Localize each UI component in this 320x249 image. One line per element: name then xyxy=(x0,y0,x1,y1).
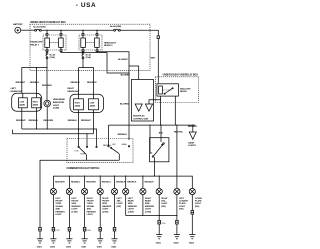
wire main bus to right xyxy=(41,29,113,31)
svg-text:LIGHT: LIGHT xyxy=(53,105,60,107)
svg-text:HEADLIGHT: HEADLIGHT xyxy=(67,90,80,93)
label lamp 5 xyxy=(117,198,124,208)
wire stubs to grounds xyxy=(40,231,115,239)
svg-text:LEFT: LEFT xyxy=(117,198,123,200)
svg-text:LIGHT: LIGHT xyxy=(55,214,62,216)
svg-text:MULTIPLEX: MULTIPLEX xyxy=(133,115,145,117)
driver triangle 2 xyxy=(145,104,152,111)
svg-text:- USA: - USA xyxy=(76,2,96,9)
bus rear ground xyxy=(126,215,177,217)
relay headlight relay 2 xyxy=(79,34,117,52)
bus taillight feed horizontal xyxy=(109,124,196,126)
wire stubs rear grounds xyxy=(159,214,192,235)
svg-text:LEFT: LEFT xyxy=(11,88,17,90)
svg-text:(5W): (5W) xyxy=(195,206,200,208)
wire relay2 coil to multiplex (A) xyxy=(97,51,129,66)
svg-text:COMBINATION LIGHT SWITCH: COMBINATION LIGHT SWITCH xyxy=(67,167,100,170)
svg-text:PARKING: PARKING xyxy=(55,210,65,213)
svg-text:RED/BLK: RED/BLK xyxy=(116,182,126,184)
wire right taillight drop xyxy=(176,125,178,188)
svg-text:G553: G553 xyxy=(189,242,195,244)
wire fuse1 output junction xyxy=(46,59,48,68)
svg-text:LEFT: LEFT xyxy=(179,198,185,200)
svg-text:RED/BLU: RED/BLU xyxy=(71,182,81,184)
svg-text:RED/BLK: RED/BLK xyxy=(188,126,198,128)
svg-text:HEADLIGHT: HEADLIGHT xyxy=(11,90,24,93)
bus parking lights feed xyxy=(53,176,159,188)
svg-text:No.21: No.21 xyxy=(86,54,92,56)
svg-text:C417: C417 xyxy=(55,230,59,232)
svg-text:LICENSE: LICENSE xyxy=(179,201,188,203)
connector C4 xyxy=(83,227,86,231)
under-dash fuse/relay box xyxy=(155,73,198,102)
svg-text:No.44 (20A): No.44 (20A) xyxy=(110,25,121,28)
node junction A-branch xyxy=(128,72,129,73)
svg-text:BLU/RED: BLU/RED xyxy=(121,74,131,76)
wire relay coil output to multiplex driver 2 xyxy=(149,96,161,104)
svg-text:RIGHT: RIGHT xyxy=(145,198,152,200)
wire drops to bulbs xyxy=(69,176,142,188)
wire right feed jog xyxy=(79,68,94,99)
svg-text:LIGHT: LIGHT xyxy=(195,203,202,205)
svg-text:BLU/RED: BLU/RED xyxy=(120,104,130,106)
wire relay1 coil to multiplex (B) xyxy=(61,51,129,73)
svg-text:MARKER: MARKER xyxy=(71,205,81,208)
node dots on taillight bus xyxy=(149,125,193,126)
wire fuse2 output junction xyxy=(82,59,84,68)
svg-text:RELAY 2: RELAY 2 xyxy=(104,44,113,47)
svg-text:G551: G551 xyxy=(111,247,117,249)
left headlight xyxy=(11,88,42,129)
svg-text:LEFT: LEFT xyxy=(128,198,134,200)
svg-text:FRONT: FRONT xyxy=(102,201,110,203)
node junction dots on bus xyxy=(46,30,97,31)
lamp left rear side marker light xyxy=(123,188,129,194)
wire license light feed from lamp bus xyxy=(159,176,192,188)
lamp left front turn signal light xyxy=(50,188,56,194)
svg-text:RIGHT: RIGHT xyxy=(161,198,168,200)
svg-text:RED/BLK: RED/BLK xyxy=(145,182,155,184)
svg-text:WHT: WHT xyxy=(151,58,156,60)
svg-text:FRONT: FRONT xyxy=(71,201,79,203)
svg-text:RED/GRN: RED/GRN xyxy=(55,182,65,184)
svg-text:G552: G552 xyxy=(174,242,180,244)
svg-text:RELAY: RELAY xyxy=(180,90,187,93)
svg-text:LIGHTS: LIGHTS xyxy=(188,145,196,147)
fuse No.44 (20A) on bus xyxy=(110,25,121,31)
label lamp 3 xyxy=(87,198,97,216)
wire relay contact output down to bus xyxy=(174,96,176,125)
node dots high bus xyxy=(47,128,48,129)
svg-text:G301: G301 xyxy=(97,247,103,249)
svg-text:HEAD: HEAD xyxy=(122,143,128,146)
svg-text:RED/BLK: RED/BLK xyxy=(118,134,128,136)
svg-text:G201: G201 xyxy=(50,247,56,249)
svg-text:G401: G401 xyxy=(37,246,43,249)
wire left feed jog xyxy=(22,68,47,94)
svg-text:RED/BLU: RED/BLU xyxy=(102,182,112,184)
svg-text:AND: AND xyxy=(87,208,92,211)
ground G203 xyxy=(82,239,88,243)
svg-text:FRONT: FRONT xyxy=(87,201,95,203)
wire ground run continues xyxy=(39,189,41,227)
svg-text:CONTROL UNIT: CONTROL UNIT xyxy=(133,118,149,120)
svg-text:RED/BLU: RED/BLU xyxy=(29,120,39,122)
svg-text:RED/WHT: RED/WHT xyxy=(16,120,26,122)
connector C9 xyxy=(191,211,194,215)
svg-text:(45W): (45W) xyxy=(75,104,81,107)
svg-text:INDICATOR: INDICATOR xyxy=(53,101,65,104)
connector C3 xyxy=(68,227,71,231)
svg-text:C559: C559 xyxy=(161,223,165,225)
ground G552 xyxy=(174,235,180,239)
lamp right front side marker light xyxy=(97,188,103,194)
svg-text:RED/GRN: RED/GRN xyxy=(86,182,96,184)
svg-text:DASH: DASH xyxy=(188,141,194,144)
label lamp 10 xyxy=(195,198,204,208)
connector C6 xyxy=(113,227,116,231)
svg-text:HIGH BEAM: HIGH BEAM xyxy=(53,98,65,101)
svg-text:TURN: TURN xyxy=(55,203,61,205)
svg-text:HIGH: HIGH xyxy=(33,101,38,103)
svg-text:LOW: LOW xyxy=(90,102,95,104)
svg-text:(45W): (45W) xyxy=(20,103,26,106)
wire stubs bus to relay pins xyxy=(47,30,97,33)
svg-text:UNDER-DASH FUSE/RELAY BOX: UNDER-DASH FUSE/RELAY BOX xyxy=(163,73,199,76)
svg-text:HEADLIGHT: HEADLIGHT xyxy=(104,41,117,44)
label lamp 8 xyxy=(161,198,168,208)
svg-text:PARKING: PARKING xyxy=(87,210,97,213)
wire rear lamp returns xyxy=(126,195,193,221)
svg-text:MARKER: MARKER xyxy=(102,205,112,208)
svg-text:HIGH: HIGH xyxy=(75,102,80,104)
wire relay2 output to fuse2 xyxy=(82,51,84,52)
svg-text:(45W): (45W) xyxy=(90,104,96,107)
combination light switch box xyxy=(67,139,134,171)
svg-text:(45W): (45W) xyxy=(33,103,39,106)
wire switch common to ground run xyxy=(67,159,119,161)
svg-text:(3.8W): (3.8W) xyxy=(128,211,134,213)
svg-text:RED/BLK: RED/BLK xyxy=(127,182,137,184)
svg-text:(15A): (15A) xyxy=(86,56,91,59)
node dot low bus xyxy=(86,133,87,134)
label lamp 1 xyxy=(55,198,65,216)
label wire colors above bulbs xyxy=(55,182,154,184)
wire branch to multiplex driver 1 xyxy=(129,66,139,80)
ground G401 xyxy=(37,239,43,243)
svg-text:SIGNAL: SIGNAL xyxy=(55,205,63,208)
node junction headlight left feed xyxy=(46,67,47,68)
under-hood fuse/relay box xyxy=(30,21,150,70)
node dots parking bus xyxy=(69,176,155,177)
svg-text:LIGHT: LIGHT xyxy=(102,209,109,211)
high beam indicator light xyxy=(44,98,65,129)
bus low beam return xyxy=(13,130,94,134)
svg-text:PASSING: PASSING xyxy=(103,144,112,147)
wire relay output down to bus xyxy=(160,100,162,125)
svg-text:LEFT: LEFT xyxy=(55,198,61,200)
svg-text:RED/YEL: RED/YEL xyxy=(174,132,184,134)
lamp right taillight xyxy=(156,188,162,194)
svg-text:TAIL-: TAIL- xyxy=(117,200,122,203)
svg-text:(5W): (5W) xyxy=(117,206,122,208)
svg-text:G551: G551 xyxy=(156,242,162,244)
lamp left front side marker light xyxy=(66,188,72,194)
wire left high beam feed xyxy=(36,68,38,98)
svg-text:SIDE: SIDE xyxy=(128,203,133,205)
svg-text:HIGH: HIGH xyxy=(80,154,85,156)
lamp right rear side marker light xyxy=(140,188,146,194)
svg-text:BLU/WHT: BLU/WHT xyxy=(118,59,128,61)
label lamp 7 xyxy=(145,198,155,214)
ground G553 xyxy=(189,235,195,239)
svg-text:SIGNAL: SIGNAL xyxy=(87,205,95,208)
connector C8 xyxy=(176,220,179,224)
svg-text:LIGHT: LIGHT xyxy=(161,203,168,205)
label lamp 4 xyxy=(102,198,112,214)
svg-text:RED/WHT: RED/WHT xyxy=(87,82,97,84)
svg-text:RIGHT: RIGHT xyxy=(87,198,94,200)
lighting switch (in combination switch, right unit) xyxy=(150,125,169,176)
connector C1 xyxy=(39,227,42,231)
svg-text:(3.8W): (3.8W) xyxy=(102,211,108,213)
relay taillight relay xyxy=(157,84,191,96)
dimmer switch contacts xyxy=(74,144,112,161)
svg-text:(3.8W): (3.8W) xyxy=(145,211,151,213)
svg-text:BATTERY: BATTERY xyxy=(13,23,23,26)
svg-text:LICENSE: LICENSE xyxy=(195,198,202,200)
right headlight xyxy=(67,88,103,146)
fuse No.21 (15A) right headlight xyxy=(82,52,92,59)
svg-text:C305: C305 xyxy=(87,230,91,232)
driver triangle 1 xyxy=(135,104,142,111)
svg-text:TURN: TURN xyxy=(87,203,93,205)
svg-text:G201: G201 xyxy=(66,247,72,249)
svg-text:RELAY 1: RELAY 1 xyxy=(31,43,40,46)
connector C7 xyxy=(158,220,161,224)
wire indicator feed xyxy=(46,68,48,101)
svg-text:(15A): (15A) xyxy=(50,56,55,59)
svg-text:SIDE: SIDE xyxy=(145,203,150,205)
wire bulb returns to grounds left group xyxy=(53,195,114,228)
svg-text:RED/WHT: RED/WHT xyxy=(16,82,26,84)
svg-text:(1.4W): (1.4W) xyxy=(53,107,59,110)
lighting switch contacts xyxy=(108,143,130,161)
svg-text:RED/GRN: RED/GRN xyxy=(43,120,53,122)
svg-text:G301: G301 xyxy=(81,247,87,249)
label lamp 6 xyxy=(128,198,138,214)
svg-text:UNDER-HOOD FUSE/RELAY BOX: UNDER-HOOD FUSE/RELAY BOX xyxy=(30,21,66,24)
svg-text:LIGHT: LIGHT xyxy=(117,203,124,205)
svg-text:RED/BLU: RED/BLU xyxy=(30,82,40,84)
svg-text:RED/BLU: RED/BLU xyxy=(68,120,78,122)
svg-text:FRONT: FRONT xyxy=(55,201,63,203)
lamp left taillight xyxy=(111,188,117,194)
svg-text:OFF: OFF xyxy=(112,144,117,146)
svg-text:REAR: REAR xyxy=(145,200,151,203)
wire low bus drop into switch xyxy=(86,134,88,146)
svg-text:No.41 (100A): No.41 (100A) xyxy=(33,26,46,29)
svg-text:No.20: No.20 xyxy=(50,54,56,56)
svg-text:LIGHT: LIGHT xyxy=(128,209,135,211)
svg-text:AND: AND xyxy=(55,208,60,211)
svg-text:LOW: LOW xyxy=(74,151,79,153)
svg-text:RIGHT: RIGHT xyxy=(67,88,74,90)
label lamp 9 xyxy=(179,198,188,211)
connector C2 xyxy=(52,227,55,231)
svg-text:RED/WHT: RED/WHT xyxy=(81,120,91,122)
wire relay1 output to fuse1 xyxy=(46,51,48,52)
wire bus left end into combination switch xyxy=(108,125,110,146)
svg-text:PLATE: PLATE xyxy=(179,202,186,205)
svg-text:BLU: BLU xyxy=(159,133,164,135)
bus high beam return xyxy=(22,129,97,146)
connector C5 xyxy=(99,227,102,231)
label lamp 2 xyxy=(71,198,81,214)
svg-text:RED/GRN: RED/GRN xyxy=(42,85,52,87)
node junction headlight right feed xyxy=(82,67,83,68)
lamp license plate light right xyxy=(189,188,195,194)
ground G202 xyxy=(66,239,72,243)
svg-text:(5W): (5W) xyxy=(179,209,184,211)
ground G551 xyxy=(156,235,162,239)
ground G205 xyxy=(111,239,117,243)
wire bus continue to right corner xyxy=(120,30,158,36)
svg-text:(3.8W): (3.8W) xyxy=(71,211,77,213)
svg-text:RED/BLU: RED/BLU xyxy=(70,82,80,84)
lamp right front turn signal light xyxy=(82,188,88,194)
arrow to dash lights xyxy=(188,125,196,147)
node dot left high xyxy=(36,67,37,68)
svg-text:TAILLIGHT: TAILLIGHT xyxy=(180,87,191,90)
ground G201 xyxy=(50,239,56,243)
svg-text:SIDE: SIDE xyxy=(71,203,76,205)
svg-text:MARKER: MARKER xyxy=(128,205,138,208)
svg-text:LIGHT: LIGHT xyxy=(71,209,78,211)
svg-text:LEFT: LEFT xyxy=(71,198,77,200)
svg-text:HEADLIGHT: HEADLIGHT xyxy=(31,41,44,44)
svg-text:PLATE: PLATE xyxy=(195,200,202,203)
wire taillight feed down xyxy=(157,39,159,84)
multiplex control unit xyxy=(132,80,154,122)
svg-text:(5W): (5W) xyxy=(161,206,166,208)
lamp license plate light left xyxy=(174,188,180,194)
svg-text:MARKER: MARKER xyxy=(145,205,155,208)
fuse No.41 (100A) xyxy=(33,26,46,32)
svg-text:SIDE: SIDE xyxy=(102,203,107,205)
svg-text:REAR: REAR xyxy=(128,200,134,203)
svg-text:LIGHT: LIGHT xyxy=(179,206,186,208)
wire battery feed xyxy=(21,29,35,31)
svg-text:LIGHT: LIGHT xyxy=(145,209,152,211)
ground G204 xyxy=(97,239,103,243)
node dots rear ground bus xyxy=(159,215,160,216)
battery BAT1 xyxy=(13,23,23,33)
fuse No.20 (15A) left headlight xyxy=(46,52,56,59)
svg-text:LIGHT: LIGHT xyxy=(87,214,94,216)
svg-text:RIGHT: RIGHT xyxy=(102,198,109,200)
node junction relay output xyxy=(160,99,161,100)
svg-text:LOW: LOW xyxy=(20,101,25,103)
relay headlight relay 1 xyxy=(31,34,67,52)
connector C231 on taillight feed xyxy=(157,36,159,39)
svg-text:TAIL-: TAIL- xyxy=(161,200,166,203)
